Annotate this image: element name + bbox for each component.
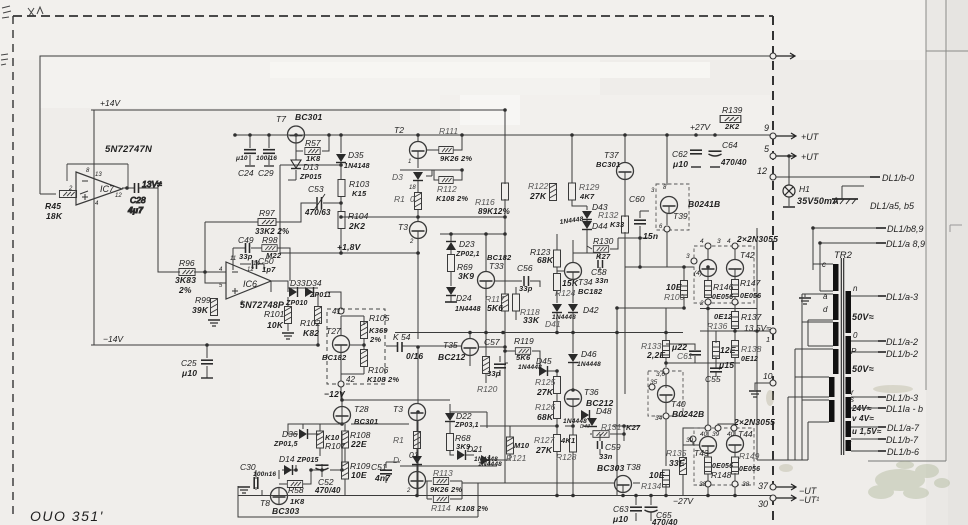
svg-text:D47: D47: [580, 424, 591, 430]
resistor R57: [305, 138, 321, 163]
svg-text:BC182: BC182: [322, 353, 347, 362]
label node 41: [332, 307, 344, 316]
svg-text:R124: R124: [555, 288, 576, 298]
transistor T39: [651, 185, 688, 230]
resistor R128: [556, 435, 577, 462]
svg-text:ZP03,1: ZP03,1: [454, 422, 479, 429]
svg-text:R148: R148: [711, 470, 732, 480]
transistor T34: [565, 263, 603, 297]
wire T43 T44 links: [683, 424, 734, 445]
capacitor C60: [629, 194, 658, 241]
node terminal 10 + ground: [749, 371, 776, 397]
svg-text:0: 0: [410, 194, 415, 204]
svg-text:13,5V≈: 13,5V≈: [744, 323, 771, 333]
svg-text:BC301: BC301: [295, 112, 323, 122]
svg-text:12: 12: [757, 166, 767, 176]
svg-text:4K7: 4K7: [579, 192, 595, 201]
svg-text:K27: K27: [626, 423, 641, 432]
transistor T44: [686, 425, 753, 453]
svg-text:−UT¹: −UT¹: [799, 495, 819, 505]
capacitor C49: [238, 235, 254, 261]
svg-text:R113: R113: [433, 468, 453, 478]
resistor R118: [513, 294, 540, 325]
wire T7 cluster: [288, 135, 329, 180]
svg-text:0E056: 0E056: [739, 466, 760, 473]
wire D45 R119 row: [505, 351, 557, 371]
diode D3: [392, 172, 423, 191]
svg-text:T27: T27: [326, 326, 341, 336]
resistor R108: [342, 430, 371, 449]
capacitor C65: [645, 507, 679, 525]
svg-text:K108 2%: K108 2%: [436, 194, 468, 203]
svg-text:D42: D42: [583, 305, 599, 315]
resistor R130: [593, 236, 614, 261]
svg-text:33p: 33p: [519, 284, 533, 293]
svg-text:DL1/b-7: DL1/b-7: [886, 435, 919, 445]
svg-text:K 54: K 54: [393, 332, 411, 342]
resistor R126: [535, 402, 561, 423]
resistor R125: [535, 377, 561, 398]
svg-text:μ10: μ10: [181, 368, 197, 378]
resistor R135: [666, 439, 687, 496]
svg-text:−14V: −14V: [103, 334, 124, 344]
svg-text:K108 2%: K108 2%: [456, 504, 488, 513]
svg-text:D23: D23: [459, 239, 475, 249]
svg-text:D·: D·: [393, 455, 402, 465]
transistor T37: [596, 150, 634, 180]
wire bottom frame: [238, 486, 478, 517]
svg-text:1N4448: 1N4448: [552, 314, 576, 321]
transistor T43: [694, 425, 721, 458]
svg-text:5K6: 5K6: [516, 353, 531, 362]
svg-text:R104: R104: [348, 211, 369, 221]
svg-text:37: 37: [758, 481, 769, 491]
diode D44: [559, 216, 608, 231]
svg-text:3K9: 3K9: [458, 271, 474, 281]
diode D22: [445, 411, 487, 429]
op-amp IC7: [67, 164, 128, 207]
svg-text:35V50mA: 35V50mA: [797, 196, 839, 206]
svg-text:T34: T34: [578, 277, 593, 287]
wire IC6 out row D33 D34: [271, 281, 318, 292]
svg-text:C28: C28: [130, 195, 146, 205]
svg-text:DL1/a-7: DL1/a-7: [887, 423, 920, 433]
capacitor C59: [598, 441, 621, 461]
wire T37 column: [618, 135, 649, 394]
transistor T28: [334, 404, 379, 426]
wire H1: [788, 156, 790, 206]
svg-text:T38: T38: [626, 462, 641, 472]
svg-text:ZP015: ZP015: [296, 457, 319, 464]
svg-text:R131: R131: [601, 422, 622, 432]
svg-text:0E056: 0E056: [712, 294, 733, 301]
svg-text:T8: T8: [260, 498, 270, 508]
dashed box T41 T42: [694, 246, 754, 303]
wire fb box C49 R98: [233, 248, 290, 281]
resistor R119: [514, 336, 534, 362]
svg-text:50V≈: 50V≈: [852, 364, 874, 374]
svg-text:DL1/a-2: DL1/a-2: [886, 337, 918, 347]
resistor R147: [732, 278, 762, 300]
resistor R133: [641, 341, 670, 361]
ground transformer left: [799, 294, 811, 304]
svg-text:68K: 68K: [537, 412, 554, 422]
wire C25 stem: [206, 345, 208, 378]
node terminal 37: [758, 481, 818, 496]
stain bottom right: [868, 461, 950, 499]
svg-text:T40: T40: [671, 399, 686, 409]
wire T35 connections: [470, 333, 505, 367]
primary bars: [833, 264, 839, 291]
resistor 12E: [713, 342, 736, 359]
svg-text:12: 12: [115, 193, 122, 199]
svg-text:R136: R136: [707, 321, 728, 331]
svg-text:a: a: [823, 292, 828, 301]
svg-text:R121: R121: [506, 453, 527, 463]
svg-text:T37: T37: [604, 150, 619, 160]
svg-text:R1: R1: [393, 435, 404, 445]
wire inner box left: [279, 165, 281, 253]
svg-text:33K2 2%: 33K2 2%: [255, 227, 289, 236]
svg-text:M10: M10: [514, 441, 530, 450]
wire R131 row: [590, 426, 624, 455]
svg-text:μ10: μ10: [612, 514, 628, 524]
resistor R131: [593, 422, 641, 437]
capacitor C51: [371, 462, 392, 483]
frame scribble top-left: [1, 6, 43, 65]
svg-text:BC301: BC301: [596, 160, 620, 169]
svg-text:R58: R58: [288, 485, 304, 495]
wire row y308: [617, 307, 757, 310]
diode D35: [336, 150, 370, 170]
svg-text:v 4V≈: v 4V≈: [852, 414, 874, 423]
svg-text:K33: K33: [610, 220, 625, 229]
svg-text:R138: R138: [741, 344, 762, 354]
svg-text:μ10: μ10: [235, 155, 248, 162]
wire R120 col: [485, 332, 487, 383]
wire R107 R108 col: [320, 424, 409, 496]
resistor R120: [477, 357, 498, 395]
svg-text:1: 1: [408, 159, 411, 165]
wire T34 column: [572, 240, 574, 332]
svg-text:R99: R99: [195, 295, 211, 305]
wire D14 C52 R58 row: [282, 448, 342, 477]
svg-text:10K: 10K: [267, 320, 284, 330]
svg-text:T3: T3: [398, 222, 408, 232]
diode D23: [446, 239, 480, 258]
svg-text:27K: 27K: [535, 445, 553, 455]
capacitor C24: [235, 150, 256, 178]
svg-text:42: 42: [346, 375, 355, 384]
wire R123 column: [556, 234, 558, 332]
svg-text:D14: D14: [279, 454, 295, 464]
svg-text:D21: D21: [467, 444, 483, 454]
svg-text:0: 0: [853, 331, 858, 340]
dashed border top: [13, 15, 773, 17]
transistor T8: [260, 488, 300, 517]
svg-text:T7: T7: [276, 114, 286, 124]
svg-text:R125: R125: [535, 377, 556, 387]
svg-text:0E12: 0E12: [714, 312, 733, 321]
svg-text:1N4448: 1N4448: [518, 364, 542, 371]
svg-text:2: 2: [409, 239, 414, 245]
svg-text:D44: D44: [592, 221, 608, 231]
svg-text:1p7: 1p7: [262, 265, 276, 274]
transformer right wires + DL1 labels: [851, 296, 884, 451]
diode D33: [285, 278, 308, 307]
wire D46 col: [572, 332, 574, 340]
svg-text:BC212: BC212: [438, 352, 466, 362]
resistor R107: [317, 431, 346, 451]
svg-text:30: 30: [758, 499, 768, 509]
transistor T40: [649, 368, 686, 422]
svg-text:9K26 2%: 9K26 2%: [430, 485, 462, 494]
svg-text:C64: C64: [722, 140, 738, 150]
wire IC7 out to C28: [122, 188, 180, 272]
svg-text:R149: R149: [739, 451, 760, 461]
node terminal out top: [770, 53, 795, 59]
svg-text:0E056: 0E056: [712, 463, 733, 470]
wire R128 col: [572, 426, 574, 496]
wire C54 T35 row: [386, 345, 461, 347]
svg-text:R147: R147: [740, 278, 761, 288]
svg-text:C25: C25: [181, 358, 197, 368]
wire R113 R114 loop: [425, 481, 505, 517]
label DL1/b-2: [878, 349, 918, 359]
svg-text:D3: D3: [392, 172, 403, 182]
wire R45 row: [40, 191, 88, 194]
svg-text:10E: 10E: [351, 470, 367, 480]
svg-text:39: 39: [712, 431, 720, 438]
svg-text:10E: 10E: [649, 470, 665, 480]
capacitor C54: [393, 332, 423, 361]
svg-text:1N4448: 1N4448: [577, 361, 601, 368]
capacitor C57: [484, 337, 506, 378]
transistor T2: [394, 125, 427, 165]
svg-text:C29: C29: [258, 168, 274, 178]
svg-text:K108 2%: K108 2%: [367, 375, 399, 384]
wire output col x735: [734, 249, 736, 496]
svg-text:D35: D35: [348, 150, 364, 160]
svg-text:11: 11: [230, 256, 236, 262]
svg-text:R139: R139: [722, 105, 743, 115]
svg-text:9K26 2%: 9K26 2%: [440, 154, 472, 163]
resistor R96: [175, 258, 196, 295]
dashed box T39: [656, 184, 689, 230]
transformer left wires: [757, 264, 833, 460]
resistor R104: [338, 211, 369, 231]
secondary bars: [846, 291, 852, 333]
svg-text:33K: 33K: [523, 315, 540, 325]
svg-text:10: 10: [763, 371, 773, 381]
diode D34: [305, 278, 331, 299]
svg-text:15n: 15n: [643, 231, 658, 241]
resistor R132: [598, 210, 629, 233]
resistor R105: [361, 313, 390, 344]
svg-text:470/63: 470/63: [304, 208, 331, 217]
svg-text:R120: R120: [477, 384, 498, 394]
svg-text:DL1/b8,9: DL1/b8,9: [887, 224, 924, 234]
ground R101: [282, 333, 294, 339]
capacitor C64: [709, 140, 748, 167]
svg-text:C61: C61: [677, 351, 693, 361]
wire rail y463: [400, 465, 497, 467]
wire R96 to IC6: [194, 271, 226, 273]
svg-text:R107: R107: [325, 441, 346, 451]
svg-text:2%: 2%: [178, 285, 192, 295]
capacitor C62: [672, 149, 702, 169]
svg-text:18K: 18K: [46, 211, 63, 221]
wire T27 box col: [340, 316, 342, 400]
resistor R139: [720, 105, 742, 131]
resistor R58: [287, 481, 305, 507]
svg-text:35: 35: [650, 379, 658, 386]
svg-text:R96: R96: [179, 258, 195, 268]
svg-text:1N4448: 1N4448: [455, 306, 481, 313]
svg-text:K15: K15: [352, 189, 367, 198]
svg-text:DL1/b-3: DL1/b-3: [886, 393, 918, 403]
svg-text:18: 18: [409, 185, 416, 191]
svg-text:R116: R116: [475, 197, 495, 207]
ground C30: [238, 487, 250, 493]
svg-text:2×2N3055: 2×2N3055: [733, 417, 775, 427]
svg-text:OUO 351ʹ: OUO 351ʹ: [30, 508, 104, 524]
resistor under T3b: [393, 432, 421, 449]
resistor R127: [534, 435, 561, 456]
svg-text:R119: R119: [514, 336, 534, 346]
svg-text:B0241B: B0241B: [688, 199, 720, 209]
wire R134 col: [665, 487, 667, 496]
resistor R109: [342, 461, 371, 480]
dashed border right: [772, 16, 774, 525]
label DL1/a-3: [878, 292, 918, 302]
node T41 left: [686, 253, 702, 277]
op-amp IC6: [219, 256, 271, 307]
svg-text:μ15: μ15: [718, 360, 734, 370]
svg-text:4K1: 4K1: [560, 436, 575, 445]
label DL1/b8,9: [876, 224, 924, 234]
resistor R117: [485, 294, 509, 313]
wire C51 col: [386, 462, 400, 483]
wire R118 drop: [515, 287, 517, 320]
svg-text:C62: C62: [672, 149, 688, 159]
resistor R116: [475, 183, 510, 216]
svg-text:H1: H1: [799, 184, 810, 194]
wire 13,5V row: [700, 330, 770, 332]
svg-text:27K: 27K: [529, 191, 547, 201]
svg-text:R98: R98: [262, 235, 278, 245]
svg-text:0E056: 0E056: [740, 293, 761, 300]
resistor R137: [714, 312, 762, 329]
transistor T33: [478, 253, 512, 289]
svg-text:13V≠: 13V≠: [142, 179, 162, 189]
resistor R138: [732, 341, 762, 364]
wire -12V rail: [342, 392, 450, 407]
wire feedback top: [40, 56, 773, 194]
svg-text:+UT: +UT: [801, 152, 820, 162]
resistor R122: [528, 181, 557, 201]
wire bottom rail: [238, 495, 773, 497]
wire node12 DL1b0: [773, 176, 878, 178]
label DL1/b-3: [878, 393, 918, 403]
svg-text:39: 39: [686, 437, 694, 444]
node R147 bottom: [732, 299, 738, 305]
diode D24: [446, 287, 481, 313]
capacitor C63: [612, 504, 642, 524]
svg-text:2: 2: [406, 488, 411, 494]
wire inner box top: [280, 164, 341, 166]
capacitor C28: [127, 179, 162, 215]
capacitor C52: [314, 465, 341, 495]
wire D47 row y426: [480, 425, 640, 427]
wire R129 D43 D44 col: [572, 135, 600, 253]
svg-text:34: 34: [655, 415, 663, 422]
wire +14V rail: [91, 109, 505, 111]
svg-text:470/40: 470/40: [720, 158, 747, 167]
svg-text:R135: R135: [666, 448, 687, 458]
svg-text:3: 3: [717, 238, 721, 245]
svg-text:2K2: 2K2: [724, 122, 740, 131]
svg-text:D24: D24: [456, 293, 472, 303]
wire R121 col: [480, 426, 510, 460]
svg-text:3,6: 3,6: [656, 371, 665, 378]
svg-text:1: 1: [766, 335, 770, 344]
wire output col x708: [707, 249, 709, 496]
wire D23 R69 D24 column: [450, 234, 452, 302]
wire T33 column: [485, 234, 487, 332]
resistor R112: [436, 177, 468, 204]
svg-text:D33: D33: [290, 278, 306, 288]
svg-text:(4): (4): [694, 270, 702, 277]
svg-text:R105: R105: [369, 313, 390, 323]
svg-text:C59: C59: [605, 442, 621, 452]
svg-text:+UT: +UT: [801, 132, 820, 142]
transistor T2b: [406, 472, 426, 495]
diode D21: [457, 444, 498, 463]
diode D42: [568, 304, 599, 315]
capacitor C58: [591, 260, 609, 285]
svg-text:R126: R126: [535, 402, 556, 412]
svg-text:C60: C60: [629, 194, 645, 204]
label node 42: [338, 375, 355, 387]
wire IC6 fb left: [205, 222, 226, 283]
wire C55 col: [715, 363, 717, 377]
svg-text:R130: R130: [593, 236, 614, 246]
transistor T3b: [393, 404, 426, 421]
svg-text:K27: K27: [596, 252, 611, 261]
wire T3b D22 row: [417, 404, 450, 496]
node terminal 5: [764, 144, 820, 162]
wire DL1 a89: [820, 243, 884, 291]
svg-text:2: 2: [68, 186, 73, 192]
transistor T35: [438, 339, 479, 363]
svg-text:5N72747N: 5N72747N: [105, 144, 153, 155]
resistor R148: [699, 457, 733, 488]
wire T39 column: [666, 135, 668, 267]
wire T36 col: [572, 362, 574, 426]
resistor R123: [530, 247, 561, 267]
svg-text:DL1/b-6: DL1/b-6: [887, 447, 919, 457]
lamp H1: [783, 184, 839, 207]
svg-text:38: 38: [742, 481, 750, 488]
svg-text:R128: R128: [556, 452, 577, 462]
svg-text:2%: 2%: [369, 335, 381, 344]
svg-text:22E: 22E: [350, 439, 367, 449]
svg-text:5K6: 5K6: [487, 303, 503, 313]
diode D36: [273, 424, 320, 448]
svg-text:c: c: [822, 260, 826, 269]
svg-text:100n16: 100n16: [253, 471, 276, 478]
